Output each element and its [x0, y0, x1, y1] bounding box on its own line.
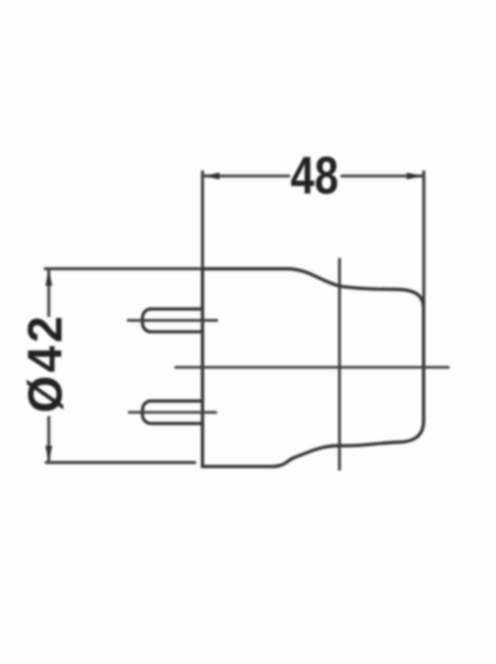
arrowhead top of dim Ø42 [45, 269, 52, 286]
vertical feature line [338, 258, 341, 471]
horizontal centerline [175, 366, 450, 369]
extension line left of dim 48 / body left edge extension [201, 171, 204, 269]
upper pin outline [143, 309, 203, 332]
extension line right of dim 48 [422, 171, 425, 306]
extension line bottom of dim Ø42 [45, 461, 196, 464]
lower pin outline [143, 401, 203, 424]
body outline [203, 269, 424, 467]
dimension line Ø42 (bottom segment) [47, 416, 50, 463]
upper pin centerline [127, 319, 218, 322]
arrowhead right of dim 48 [407, 173, 424, 180]
dimension line 48 (left segment) [203, 175, 291, 178]
dimension line Ø42 (top segment) [47, 269, 50, 317]
lower pin centerline [128, 411, 217, 414]
arrowhead left of dim 48 [203, 173, 220, 180]
svg-text:48: 48 [291, 147, 339, 206]
arrowhead bottom of dim Ø42 [45, 446, 52, 463]
svg-text:Ø42: Ø42 [20, 316, 73, 413]
dimension line 48 (right segment) [341, 175, 424, 178]
extension line top of dim Ø42 (merges into body top edge) [44, 267, 204, 270]
